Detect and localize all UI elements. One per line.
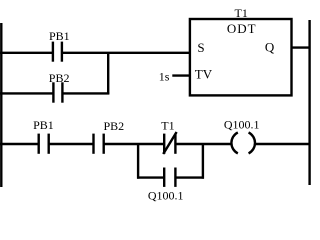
- svg-text:Q100.1: Q100.1: [224, 118, 260, 132]
- wire rung2 left rail to PB1: [0, 143, 39, 145]
- wire PB1 to PB2 rung2: [49, 143, 94, 145]
- timer box U T1: [190, 19, 292, 95]
- svg-text:ODT: ODT: [227, 21, 257, 36]
- right power rail: [308, 20, 310, 185]
- svg-text:PB2: PB2: [104, 119, 125, 133]
- slash of NC contact T1: [163, 132, 176, 154]
- wire T1 to coil: [175, 143, 231, 145]
- contact PB1 rung2: [38, 134, 40, 154]
- wire branch horizontal left segment: [137, 176, 164, 178]
- wire branch vertical left: [137, 144, 139, 179]
- wire PB2 to T1 contact: [104, 143, 165, 145]
- svg-text:Q100.1: Q100.1: [148, 189, 184, 203]
- wire 1s to TV input: [172, 74, 190, 76]
- wire coil to right rail: [255, 143, 310, 145]
- contact Q100.1 branch: [163, 168, 165, 187]
- wire rung1 from PB1 to timer S input: [62, 52, 191, 54]
- svg-text:PB1: PB1: [33, 118, 54, 132]
- wire PB2 branch left segment: [0, 92, 53, 94]
- svg-text:Q: Q: [265, 40, 275, 55]
- svg-text:T1: T1: [161, 119, 174, 133]
- contact PB2 branch: [52, 82, 54, 102]
- svg-text:PB2: PB2: [49, 71, 70, 85]
- wire branch horizontal right segment: [175, 176, 204, 178]
- wire timer Q output to right rail: [292, 46, 310, 48]
- contact PB2 rung2: [92, 134, 94, 154]
- coil Q100.1: [231, 132, 237, 153]
- svg-text:S: S: [197, 40, 204, 55]
- wire PB2 branch to junction: [62, 92, 109, 94]
- wire junction vertical joining PB1/PB2: [107, 53, 109, 95]
- contact T1 NC rung2: [163, 134, 165, 154]
- svg-text:PB1: PB1: [49, 29, 70, 43]
- wire rung1 left segment: [0, 52, 53, 54]
- svg-text:1s: 1s: [159, 69, 170, 83]
- svg-text:T1: T1: [235, 6, 248, 20]
- contact PB1 rung1: [52, 42, 54, 62]
- wire branch vertical right: [202, 144, 204, 179]
- svg-text:TV: TV: [195, 67, 213, 82]
- left power rail: [0, 23, 2, 187]
